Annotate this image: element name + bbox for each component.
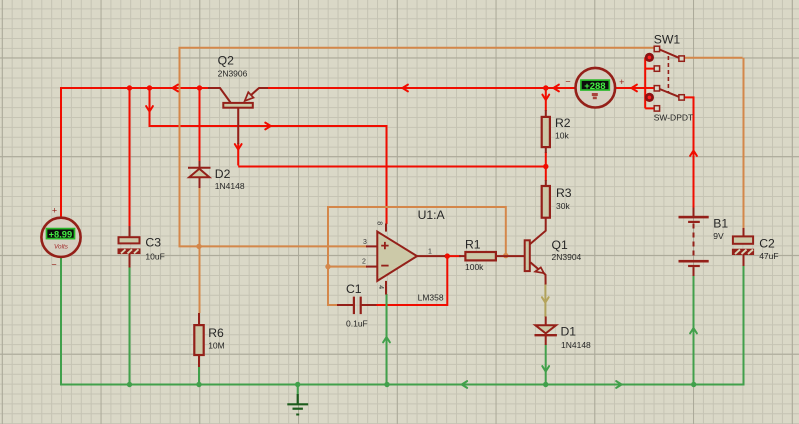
svg-text:R1: R1	[465, 238, 481, 252]
svg-text:SW1: SW1	[654, 33, 681, 47]
svg-text:+8.99: +8.99	[49, 230, 73, 240]
svg-text:D1: D1	[561, 325, 577, 339]
svg-text:−: −	[565, 77, 570, 87]
svg-text:C1: C1	[346, 282, 362, 296]
svg-text:U1:A: U1:A	[418, 208, 446, 222]
svg-text:R2: R2	[555, 116, 571, 130]
svg-text:47uF: 47uF	[759, 251, 778, 261]
svg-text:1N4148: 1N4148	[215, 181, 245, 191]
svg-text:3: 3	[363, 239, 367, 246]
svg-text:0.1uF: 0.1uF	[346, 318, 368, 328]
svg-text:Q2: Q2	[218, 54, 234, 68]
svg-text:+288: +288	[584, 81, 605, 92]
svg-text:2N3904: 2N3904	[552, 252, 582, 262]
svg-text:1N4148: 1N4148	[561, 340, 591, 350]
svg-text:4: 4	[377, 285, 384, 289]
svg-text:Volts: Volts	[54, 243, 69, 250]
svg-text:8: 8	[376, 221, 383, 225]
svg-text:+: +	[619, 77, 624, 87]
svg-text:LM358: LM358	[418, 293, 444, 303]
svg-text:Q1: Q1	[552, 238, 568, 252]
svg-text:D2: D2	[215, 167, 231, 181]
svg-text:R6: R6	[208, 326, 224, 340]
svg-text:30k: 30k	[556, 201, 570, 211]
svg-text:100k: 100k	[465, 262, 484, 272]
svg-text:C2: C2	[759, 237, 775, 251]
svg-text:−: −	[51, 260, 56, 270]
svg-text:2: 2	[362, 258, 366, 265]
svg-text:C3: C3	[145, 235, 161, 249]
svg-text:10k: 10k	[555, 130, 569, 140]
svg-text:9V: 9V	[713, 231, 724, 241]
svg-text:B1: B1	[713, 217, 728, 231]
svg-text:10M: 10M	[208, 341, 225, 351]
svg-text:SW-DPDT: SW-DPDT	[654, 112, 694, 122]
svg-text:2N3906: 2N3906	[218, 68, 248, 78]
svg-text:1: 1	[428, 248, 432, 255]
svg-text:R3: R3	[556, 186, 572, 200]
svg-text:10uF: 10uF	[145, 251, 164, 261]
svg-text:+: +	[52, 206, 57, 216]
